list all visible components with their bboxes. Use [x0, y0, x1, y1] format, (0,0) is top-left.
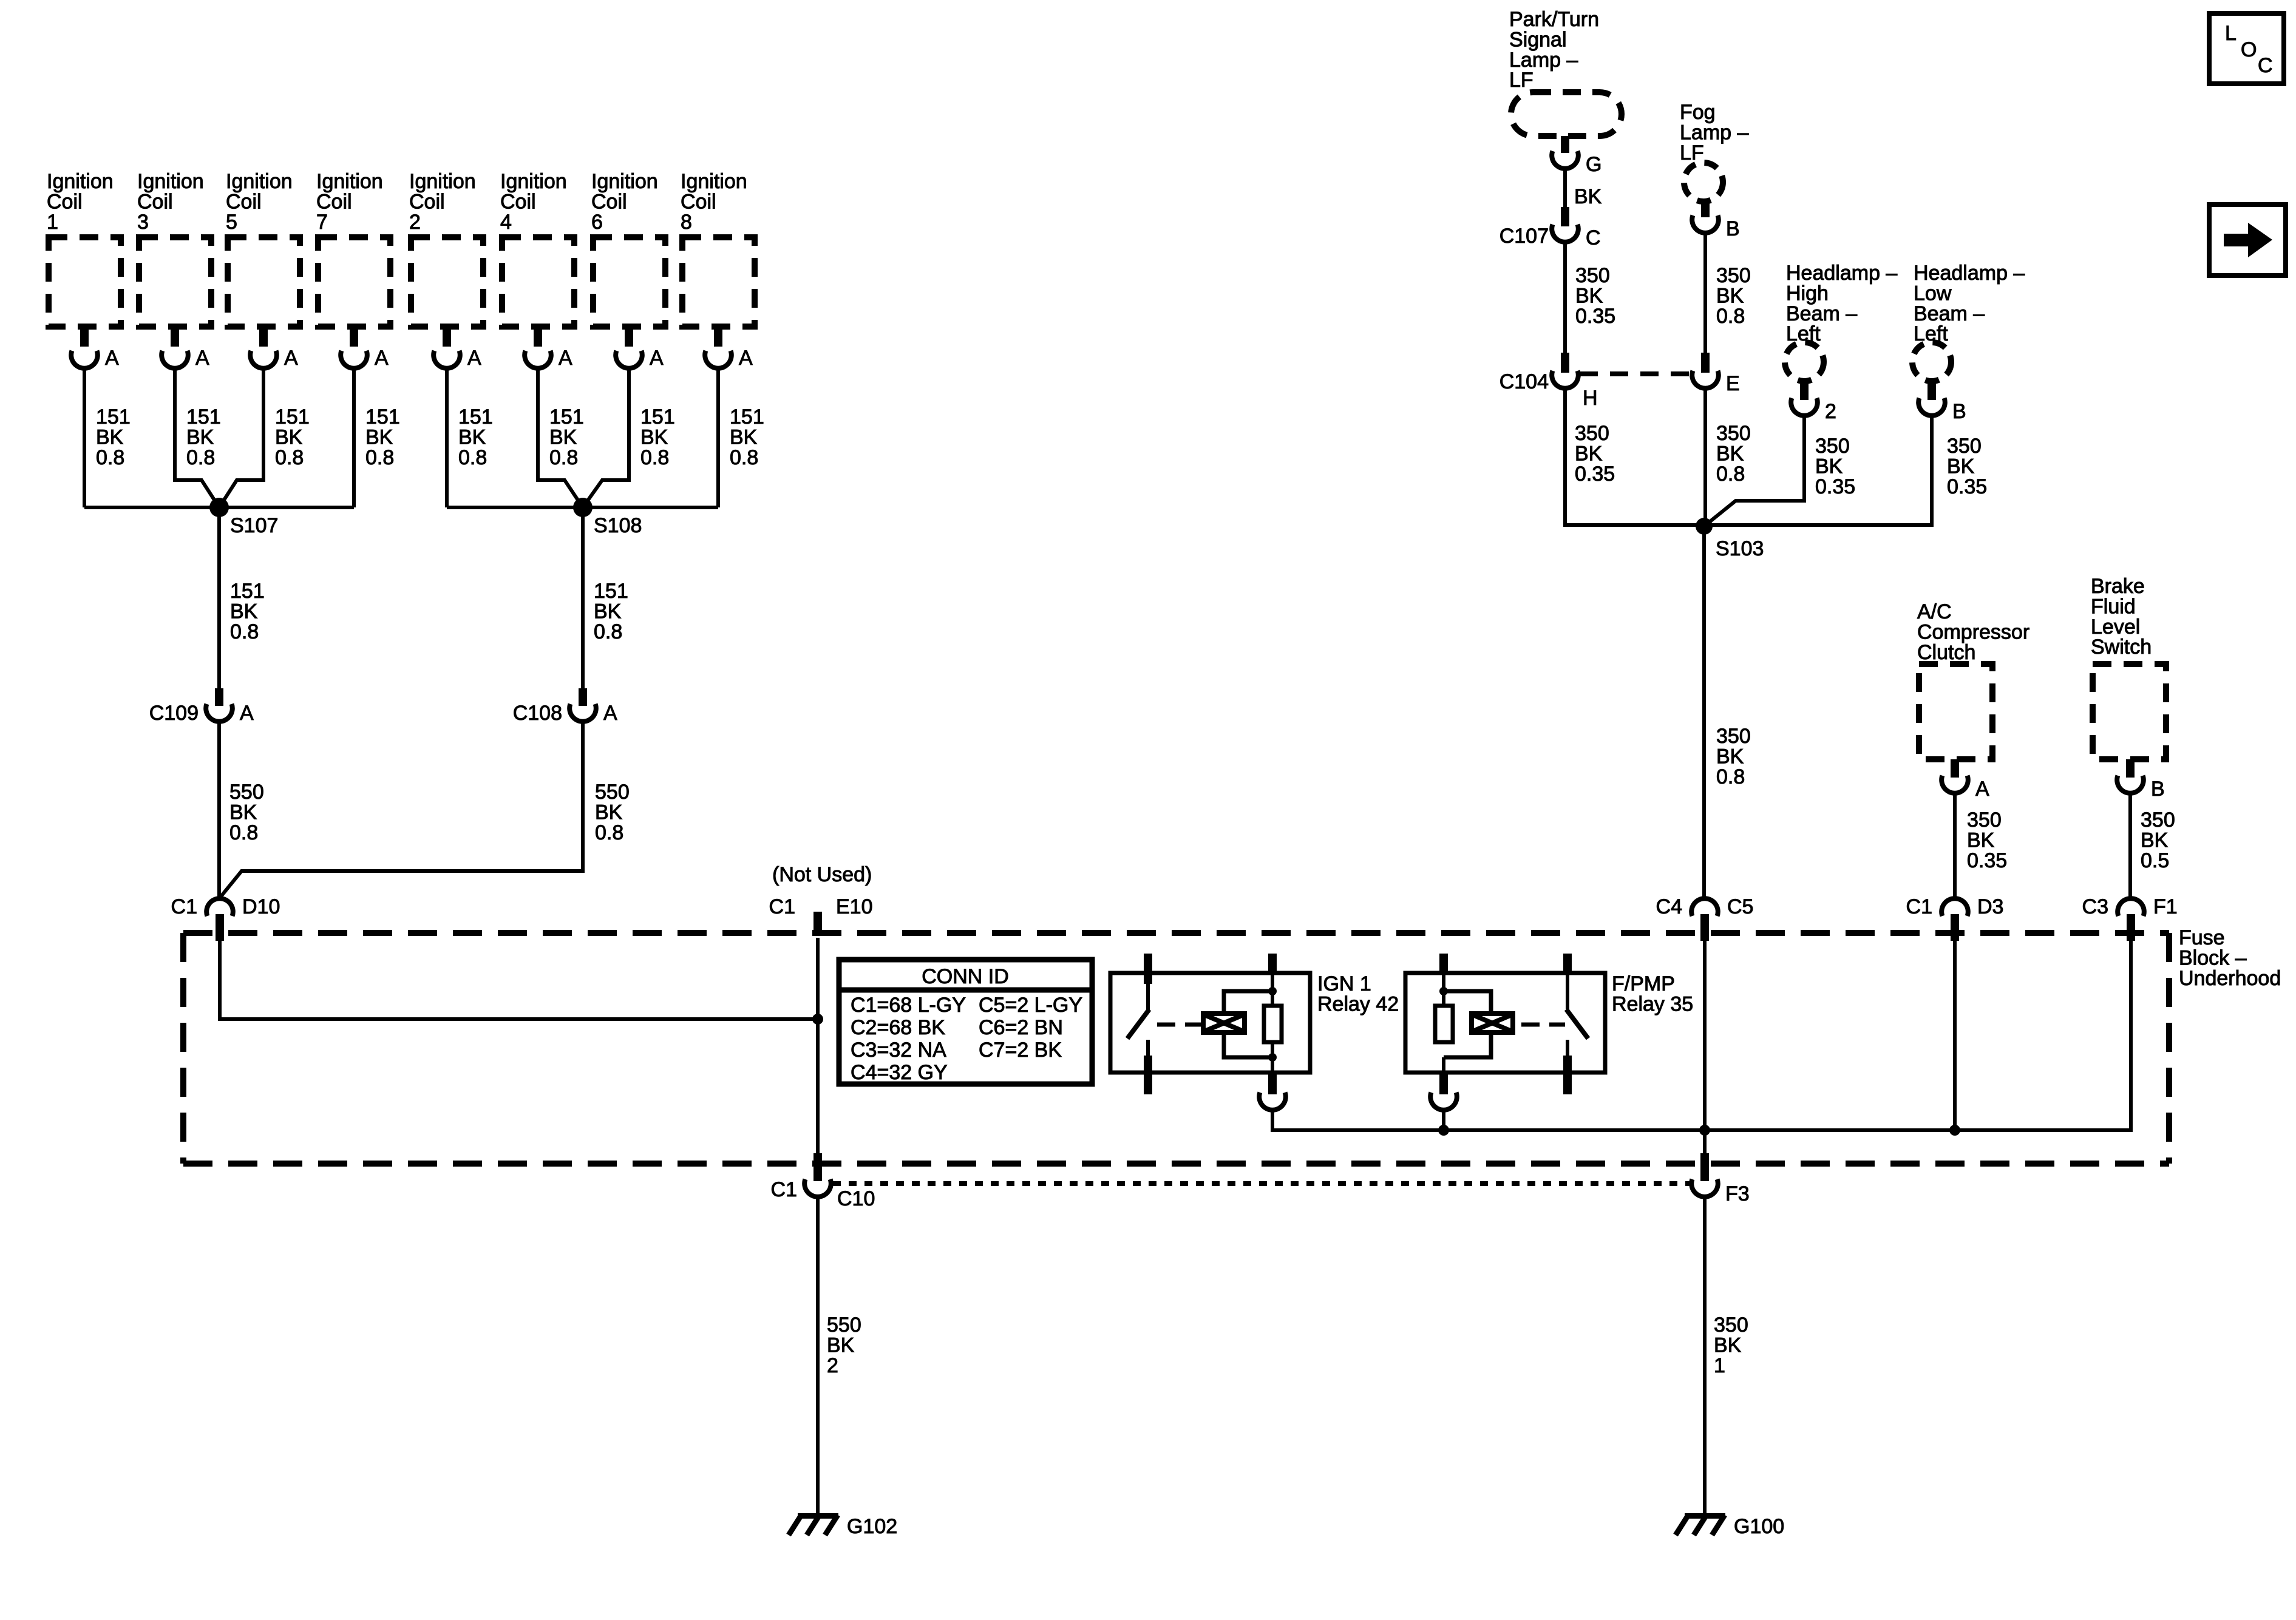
svg-text:BK: BK [1574, 185, 1602, 208]
svg-text:C1: C1 [171, 895, 197, 918]
dotted connector continuation line between C10 and F3 [833, 1181, 1690, 1186]
svg-text:BK: BK [730, 425, 758, 449]
svg-text:0.8: 0.8 [1716, 305, 1745, 328]
svg-text:350: 350 [1716, 264, 1751, 287]
wire 151 BK 0.8 (outer right) [352, 368, 356, 507]
svg-text:6: 6 [591, 211, 603, 234]
svg-text:151: 151 [96, 405, 131, 429]
svg-text:D10: D10 [242, 895, 280, 918]
svg-text:350: 350 [1575, 422, 1609, 445]
svg-text:0.35: 0.35 [1575, 463, 1615, 486]
svg-text:Fluid: Fluid [2091, 595, 2136, 618]
svg-text:Fuse: Fuse [2179, 926, 2225, 949]
relay F/PMP coil pin (top left) [1439, 954, 1448, 1006]
relay IGN 1 coil parallel loop wires [1224, 991, 1272, 1057]
svg-text:0.8: 0.8 [230, 620, 259, 643]
svg-text:L: L [2225, 22, 2237, 45]
svg-text:Ignition: Ignition [316, 170, 383, 193]
svg-text:7: 7 [316, 211, 328, 234]
svg-text:151: 151 [730, 405, 764, 429]
wire 550 BK 0.8 from C108 bending left into D10 [220, 722, 583, 897]
svg-text:Park/Turn: Park/Turn [1509, 8, 1599, 31]
svg-text:G100: G100 [1734, 1515, 1784, 1538]
svg-text:0.8: 0.8 [275, 446, 304, 469]
svg-text:0.8: 0.8 [549, 446, 578, 469]
fuse block connector C3 / F1 [2082, 895, 2178, 941]
svg-text:1: 1 [47, 211, 58, 234]
junction node on ground bus at F/PMP output [1438, 1125, 1449, 1136]
svg-text:550: 550 [827, 1313, 861, 1337]
svg-text:S107: S107 [230, 514, 278, 537]
svg-text:1: 1 [1714, 1354, 1725, 1377]
svg-text:Headlamp –: Headlamp – [1914, 262, 2025, 285]
relay F/PMP coil (box with X) [1472, 1014, 1513, 1032]
svg-text:350: 350 [2141, 808, 2175, 832]
svg-text:C108: C108 [513, 702, 562, 725]
splice S107 [209, 498, 278, 537]
svg-text:0.8: 0.8 [640, 446, 669, 469]
ignition coil 4 (dashed component box + label) [500, 170, 574, 327]
connector terminal pin B of fog lamp [1692, 200, 1739, 240]
svg-text:151: 151 [275, 405, 310, 429]
svg-text:350: 350 [1716, 422, 1751, 445]
svg-text:Ignition: Ignition [681, 170, 747, 193]
ignition coil 2 (dashed component box + label) [409, 170, 483, 327]
svg-text:A: A [603, 702, 617, 725]
svg-text:151: 151 [594, 580, 628, 603]
svg-text:550: 550 [229, 781, 264, 804]
svg-text:A: A [105, 347, 119, 370]
svg-text:151: 151 [365, 405, 400, 429]
svg-text:Left: Left [1914, 322, 1948, 345]
svg-text:F1: F1 [2153, 895, 2178, 918]
svg-text:BK: BK [640, 425, 668, 449]
junction node ground bus / F3 wire [1699, 1125, 1710, 1136]
splice bus wire [447, 506, 718, 509]
wire 151 BK 0.8 from splice S108 down [581, 507, 585, 688]
svg-text:C6=2 BN: C6=2 BN [979, 1016, 1063, 1039]
svg-text:0.35: 0.35 [1967, 849, 2007, 872]
relay IGN 1 label [1317, 972, 1399, 1015]
svg-text:2: 2 [1825, 400, 1836, 423]
svg-text:Lamp –: Lamp – [1680, 121, 1748, 144]
connector terminal pin B of low beam headlamp [1918, 382, 1966, 423]
LOC legend box [2209, 13, 2284, 84]
svg-text:Ignition: Ignition [137, 170, 204, 193]
relay IGN 1 actuation dashed link [1157, 1023, 1201, 1027]
wire 550 BK 2 from C10 to ground G102 [818, 1197, 861, 1513]
relay IGN 1 coil pin lower node and bottom pin [1259, 1042, 1286, 1110]
svg-text:BK: BK [1815, 455, 1843, 478]
wire 350 BK 0.5 from brake fluid switch to F1 [2130, 793, 2175, 898]
splice S103 [1696, 518, 1764, 560]
svg-text:151: 151 [230, 580, 265, 603]
svg-text:A: A [559, 347, 572, 370]
connector terminal pin 2 of high beam headlamp [1791, 382, 1836, 423]
svg-text:BK: BK [1967, 829, 1995, 852]
svg-text:350: 350 [1947, 435, 1982, 458]
svg-text:350: 350 [1967, 808, 2002, 832]
relay IGN 1 coil pin (top right) [1268, 954, 1277, 1006]
svg-text:Coil: Coil [137, 190, 173, 213]
brake fluid level switch (dashed box + label) [2091, 575, 2166, 759]
wire inside fuse block from C5 down to F3 [1703, 941, 1707, 1155]
svg-text:CONN ID: CONN ID [922, 965, 1009, 988]
in-line connector C107 pin C [1500, 207, 1601, 249]
svg-text:3: 3 [137, 211, 149, 234]
wire 151 BK 0.8 from coil (outer left) down to splice bus [445, 368, 449, 507]
svg-text:G: G [1586, 153, 1601, 176]
wire 350 BK 0.8 from E to splice S103 [1705, 388, 1751, 525]
in-line connector E [1692, 353, 1739, 395]
splice S108 [573, 498, 642, 537]
ground bus wire inside fuse block [1444, 941, 2131, 1130]
relay F/PMP coil parallel loop wires [1444, 991, 1491, 1057]
relay F/PMP actuation dashed link [1521, 1023, 1565, 1027]
wire 350 BK 0.35 from C107 to C104 [1565, 242, 1615, 353]
wire 350 BK 0.35 from A/C clutch to D3 [1955, 793, 2007, 898]
relay F/PMP switch blade [1566, 1009, 1588, 1039]
connector terminal pin A of ignition coil 5 [250, 327, 298, 370]
wire 350 BK 0.8 from fog lamp to E [1705, 233, 1751, 353]
svg-text:550: 550 [595, 781, 630, 804]
svg-text:BK: BK [595, 801, 623, 824]
wire 350 BK 0.35 from low beam to S103 [1704, 416, 1987, 525]
svg-text:151: 151 [458, 405, 493, 429]
svg-text:A: A [467, 347, 481, 370]
ignition coil 8 (dashed component box + label) [681, 170, 755, 327]
svg-text:(Not Used): (Not Used) [772, 863, 872, 886]
headlamp low beam left (dashed circle + label) [1912, 262, 2025, 381]
fuse block connector C4 / C5 [1656, 895, 1754, 941]
svg-text:BK: BK [1575, 284, 1603, 307]
svg-text:F3: F3 [1725, 1182, 1750, 1205]
svg-text:Ignition: Ignition [591, 170, 658, 193]
ignition coil 1 (dashed component box + label) [47, 170, 121, 327]
relay F/PMP switch pin (top right) [1563, 954, 1572, 1009]
svg-text:C4=32 GY: C4=32 GY [851, 1061, 948, 1084]
svg-text:B: B [1726, 217, 1740, 240]
svg-text:C5: C5 [1727, 895, 1753, 918]
wire 151 BK 0.8 (inner right) [219, 368, 263, 507]
svg-text:BK: BK [2141, 829, 2169, 852]
wire from F/PMP relay output to ground bus [1442, 1110, 1445, 1130]
svg-text:2: 2 [409, 211, 421, 234]
svg-text:BK: BK [229, 801, 257, 824]
connector terminal pin A of ignition coil 2 [433, 327, 481, 370]
svg-text:A: A [1975, 778, 1989, 801]
svg-text:C: C [1586, 226, 1601, 249]
svg-text:BK: BK [1716, 284, 1744, 307]
svg-text:5: 5 [226, 211, 237, 234]
svg-text:LF: LF [1509, 69, 1533, 92]
relay F/PMP Relay 35 outline [1405, 973, 1605, 1073]
svg-text:LF: LF [1680, 141, 1704, 164]
svg-text:Clutch: Clutch [1917, 641, 1975, 664]
connector terminal pin A of ignition coil 7 [341, 327, 389, 370]
wire 550 BK 0.8 from C109 to fuse block D10 [217, 722, 221, 898]
svg-text:0.8: 0.8 [730, 446, 758, 469]
relay F/PMP output pin (bottom left) [1430, 1057, 1457, 1110]
svg-text:A: A [739, 347, 753, 370]
svg-text:0.8: 0.8 [229, 821, 258, 844]
fuse block connector C1 / E10 (Not Used) [769, 863, 873, 935]
connector terminal pin A of ignition coil 6 [616, 327, 664, 370]
connector terminal pin A of ignition coil 4 [525, 327, 572, 370]
svg-text:E10: E10 [836, 895, 873, 918]
svg-text:350: 350 [1815, 435, 1850, 458]
svg-text:BK: BK [365, 425, 393, 449]
svg-text:Underhood: Underhood [2179, 967, 2281, 990]
wire from IGN 1 relay output to ground bus [1272, 1110, 1444, 1130]
svg-text:151: 151 [640, 405, 675, 429]
arrow navigation box [2209, 205, 2286, 276]
junction node [812, 1014, 823, 1025]
park/turn signal lamp LF (dashed stadium outline + label) [1509, 8, 1622, 136]
svg-text:0.35: 0.35 [1815, 475, 1855, 498]
svg-text:350: 350 [1714, 1313, 1748, 1337]
svg-text:0.8: 0.8 [595, 821, 623, 844]
svg-text:Ignition: Ignition [409, 170, 476, 193]
svg-text:Coil: Coil [47, 190, 83, 213]
svg-text:151: 151 [186, 405, 221, 429]
svg-text:Switch: Switch [2091, 635, 2152, 659]
svg-text:Lamp –: Lamp – [1509, 49, 1578, 72]
svg-text:0.35: 0.35 [1575, 305, 1615, 328]
fuse block underhood dashed outline [183, 933, 2169, 1164]
fuse block connector C1 / C10 [771, 1153, 875, 1210]
ignition coil 5 (dashed component box + label) [226, 170, 300, 327]
relay IGN 1 switch blade [1127, 1009, 1149, 1039]
svg-text:Coil: Coil [226, 190, 262, 213]
junction node ground bus / D3 wire [1949, 1125, 1960, 1136]
svg-text:Ignition: Ignition [500, 170, 567, 193]
svg-text:S108: S108 [594, 514, 642, 537]
svg-text:C4: C4 [1656, 895, 1682, 918]
svg-text:Level: Level [2091, 615, 2140, 639]
svg-text:S103: S103 [1716, 537, 1764, 560]
wire 151 BK 0.8 (outer right) [716, 368, 720, 507]
svg-text:C109: C109 [149, 702, 199, 725]
svg-text:Coil: Coil [409, 190, 445, 213]
svg-text:H: H [1583, 387, 1598, 410]
svg-text:Coil: Coil [316, 190, 352, 213]
svg-text:A: A [284, 347, 298, 370]
svg-text:0.35: 0.35 [1947, 475, 1987, 498]
headlamp high beam left (dashed circle + label) [1785, 262, 1897, 381]
ignition coil 6 (dashed component box + label) [591, 170, 665, 327]
svg-text:B: B [2151, 778, 2165, 801]
svg-text:2: 2 [827, 1354, 838, 1377]
svg-text:BK: BK [1714, 1334, 1742, 1357]
svg-text:B: B [1952, 400, 1966, 423]
svg-text:BK: BK [458, 425, 486, 449]
in-line connector C109 pin A [149, 688, 254, 725]
connector terminal pin G of park/turn lamp [1552, 136, 1601, 176]
svg-text:Beam –: Beam – [1914, 302, 1985, 325]
svg-text:C107: C107 [1500, 225, 1549, 248]
svg-text:Block –: Block – [2179, 946, 2247, 969]
ground G102 [789, 1513, 897, 1538]
wire from E10 down through fuse block to C10 [816, 938, 820, 1155]
svg-text:Left: Left [1786, 322, 1821, 345]
svg-text:Relay 42: Relay 42 [1317, 992, 1399, 1015]
wire 151 BK 0.8 from coil (outer left) down to splice bus [83, 368, 86, 507]
svg-text:A/C: A/C [1917, 600, 1952, 623]
relay F/PMP switch fixed contact + bottom pin [1563, 1040, 1572, 1094]
svg-text:A: A [195, 347, 209, 370]
connector terminal pin B of brake fluid level switch [2117, 759, 2164, 801]
svg-text:C5=2 L-GY: C5=2 L-GY [979, 994, 1082, 1017]
svg-text:0.8: 0.8 [594, 620, 622, 643]
svg-text:A: A [240, 702, 254, 725]
wire 151 BK 0.8 (inner left) [538, 368, 583, 507]
fuse block connector C1 / D10 [171, 895, 280, 941]
relay IGN 1 resistor [1264, 1006, 1282, 1042]
svg-text:C104: C104 [1500, 370, 1549, 393]
svg-text:Ignition: Ignition [47, 170, 114, 193]
wire inside fuse block from D10 to C10 junction [220, 941, 818, 1019]
svg-text:C1=68 L-GY: C1=68 L-GY [851, 994, 966, 1017]
svg-text:C10: C10 [837, 1187, 875, 1210]
svg-text:BK: BK [1716, 745, 1744, 768]
A/C compressor clutch (dashed box + label) [1917, 600, 2029, 759]
svg-text:Signal: Signal [1509, 28, 1567, 51]
svg-text:0.8: 0.8 [186, 446, 215, 469]
svg-text:C3=32 NA: C3=32 NA [851, 1039, 946, 1062]
fog lamp LF (dashed circle outline + label) [1680, 101, 1748, 202]
svg-text:A: A [650, 347, 664, 370]
svg-text:0.8: 0.8 [458, 446, 487, 469]
svg-text:C1: C1 [1906, 895, 1932, 918]
svg-text:Compressor: Compressor [1917, 620, 2029, 643]
svg-text:Coil: Coil [681, 190, 716, 213]
wire 151 BK 0.8 (inner left) [175, 368, 219, 507]
svg-text:BK: BK [230, 600, 258, 623]
svg-text:C1: C1 [769, 895, 795, 918]
wire 151 BK 0.8 from splice S107 down [217, 507, 221, 688]
relay F/PMP label [1612, 972, 1693, 1015]
fuse block connector F3 [1691, 1153, 1749, 1205]
svg-text:Coil: Coil [591, 190, 627, 213]
dashed connector link between C104 H and E [1580, 371, 1691, 376]
svg-text:BK: BK [1716, 442, 1744, 465]
svg-text:Relay 35: Relay 35 [1612, 992, 1693, 1015]
svg-text:0.8: 0.8 [96, 446, 124, 469]
in-line connector C104 pin H [1500, 353, 1598, 410]
wire 350 BK 0.35 from high beam to S103 [1704, 416, 1855, 526]
svg-text:BK: BK [1947, 455, 1975, 478]
svg-text:Ignition: Ignition [226, 170, 293, 193]
connector terminal pin A of A/C compressor clutch [1941, 759, 1989, 801]
svg-text:0.8: 0.8 [365, 446, 394, 469]
svg-text:BK: BK [1575, 442, 1603, 465]
in-line connector C108 pin A [513, 688, 617, 725]
svg-text:F/PMP: F/PMP [1612, 972, 1675, 995]
svg-text:IGN 1: IGN 1 [1317, 972, 1371, 995]
wire BK from G to C107 [1565, 169, 1602, 208]
fuse block connector C1 / D3 [1906, 895, 2004, 941]
svg-text:0.5: 0.5 [2141, 849, 2169, 872]
ground G100 [1676, 1513, 1784, 1538]
svg-text:BK: BK [186, 425, 214, 449]
svg-text:E: E [1726, 372, 1740, 395]
wire 350 BK 0.8 from S103 to fuse block C5 [1704, 526, 1751, 898]
connector terminal pin A of ignition coil 1 [71, 327, 119, 370]
svg-text:Fog: Fog [1680, 101, 1716, 124]
svg-text:C3: C3 [2082, 895, 2108, 918]
svg-text:A: A [375, 347, 389, 370]
svg-text:0.8: 0.8 [1716, 463, 1745, 486]
wire 350 BK 1 from F3 to ground G100 [1705, 1197, 1748, 1513]
svg-text:151: 151 [549, 405, 584, 429]
relay F/PMP resistor [1435, 1006, 1453, 1042]
connector terminal pin A of ignition coil 3 [161, 327, 209, 370]
wire 151 BK 0.8 (inner right) [583, 368, 629, 507]
svg-text:D3: D3 [1977, 895, 2003, 918]
relay IGN 1 coil (box with X) [1203, 1014, 1245, 1032]
svg-text:350: 350 [1716, 725, 1751, 748]
relay IGN 1 switch fixed contact + bottom pin [1144, 1040, 1152, 1094]
connector terminal pin A of ignition coil 8 [705, 327, 753, 370]
splice bus wire [84, 506, 354, 509]
svg-text:Beam –: Beam – [1786, 302, 1857, 325]
CONN ID table [839, 960, 1092, 1084]
svg-text:8: 8 [681, 211, 692, 234]
svg-text:350: 350 [1575, 264, 1610, 287]
fuse block label [2179, 926, 2281, 990]
wire inside fuse block from D3 to ground bus [1953, 941, 1957, 1130]
relay IGN 1 switch pin (top left) [1144, 954, 1152, 1011]
svg-text:G102: G102 [847, 1515, 897, 1538]
svg-text:Brake: Brake [2091, 575, 2145, 598]
svg-text:BK: BK [549, 425, 577, 449]
wire 350 BK 0.35 from C104 to splice S103 [1565, 388, 1704, 525]
svg-text:C2=68 BK: C2=68 BK [851, 1016, 945, 1039]
svg-text:C: C [2258, 54, 2273, 77]
svg-text:4: 4 [500, 211, 512, 234]
svg-text:BK: BK [827, 1334, 855, 1357]
svg-text:High: High [1786, 282, 1829, 305]
svg-text:BK: BK [96, 425, 124, 449]
svg-text:C7=2 BK: C7=2 BK [979, 1039, 1062, 1062]
svg-text:C1: C1 [771, 1178, 797, 1201]
svg-text:BK: BK [275, 425, 303, 449]
svg-text:Headlamp –: Headlamp – [1786, 262, 1897, 285]
svg-text:0.8: 0.8 [1716, 765, 1745, 788]
ignition coil 7 (dashed component box + label) [316, 170, 390, 327]
svg-text:O: O [2241, 38, 2257, 61]
ignition coil 3 (dashed component box + label) [137, 170, 211, 327]
relay IGN 1 Relay 42 outline [1110, 973, 1310, 1073]
svg-text:Coil: Coil [500, 190, 536, 213]
svg-text:Low: Low [1914, 282, 1952, 305]
svg-text:BK: BK [594, 600, 622, 623]
